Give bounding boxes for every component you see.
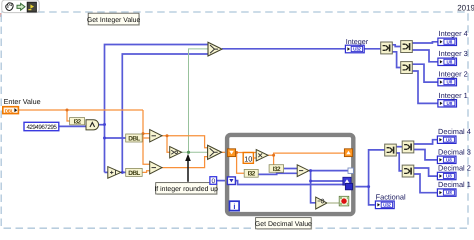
svg-text:Get Integer Value: Get Integer Value bbox=[87, 17, 141, 24]
svg-text:Decimal 3: Decimal 3 bbox=[438, 147, 471, 156]
node SR feed junction bbox=[309, 180, 312, 183]
hollow output tunnel bbox=[348, 168, 353, 173]
conversion I32a bbox=[244, 169, 258, 177]
wire constant-to-AND bbox=[59, 125, 86, 127]
wire multiply out to right orange SR bbox=[268, 153, 345, 155]
wire split1 hi to split2 bbox=[392, 45, 401, 47]
WIRES-BLUE bbox=[59, 42, 438, 205]
constant 4294967295 bbox=[24, 122, 59, 131]
wire boolean up to Select1 s bbox=[189, 49, 209, 152]
svg-text:10: 10 bbox=[244, 154, 252, 163]
conversion DBL1 bbox=[126, 134, 143, 142]
svg-text:I32: I32 bbox=[74, 119, 82, 126]
wire AND-output bbox=[99, 124, 105, 126]
wire split1 lo to split3 bbox=[392, 52, 401, 68]
wire vertical to subtract2 bbox=[143, 110, 150, 164]
toolbar hand icon bbox=[6, 3, 13, 11]
indicator terminal Integer 1 bbox=[438, 100, 457, 107]
node subtract1 out branch bbox=[166, 134, 169, 137]
junction dots orange bbox=[66, 109, 276, 157]
svg-text:DBL: DBL bbox=[128, 135, 140, 142]
multiply U8 bbox=[256, 150, 268, 161]
node subtract3-out junction bbox=[309, 169, 312, 172]
subtract U3 bbox=[150, 161, 162, 174]
wire DBL1 out to subtract1 y input bbox=[142, 137, 150, 139]
wire subtract2 out to Select2 f bbox=[162, 157, 208, 168]
constant 10 bbox=[243, 153, 253, 164]
shift register right blue bbox=[343, 177, 351, 185]
for loop F1 bbox=[227, 135, 353, 214]
power-of-10 U10 bbox=[316, 197, 327, 209]
select U6 bbox=[208, 42, 222, 56]
wire branch down to comparison bbox=[167, 136, 170, 153]
wire Enter Value main run bbox=[19, 109, 144, 111]
wire DBL2 out to subtract2 y input bbox=[142, 171, 150, 173]
indicator terminal Integer 2 bbox=[438, 78, 457, 85]
node AND-out junction bbox=[103, 123, 106, 126]
split number S4 bbox=[385, 144, 397, 156]
svg-text:Decimal 4: Decimal 4 bbox=[438, 127, 471, 136]
wire branch to subtract1 x input bbox=[143, 133, 150, 135]
toolbar container bbox=[2, 0, 39, 13]
split number S2 bbox=[401, 41, 413, 53]
select U7 bbox=[208, 145, 222, 159]
split number S6 bbox=[402, 165, 414, 177]
comparison greater-than-0 U5 bbox=[170, 147, 182, 158]
indicator terminal Decimal 2 bbox=[437, 172, 456, 179]
annotation arrow bbox=[185, 154, 191, 182]
svg-text:Factional: Factional bbox=[376, 192, 406, 201]
increment U4 bbox=[108, 167, 121, 179]
wire subtract3 out to hollow tunnel bbox=[309, 170, 348, 172]
wire branch down to I32b bbox=[273, 155, 275, 164]
left edge mark bbox=[0, 13, 2, 17]
indicator terminal Factional bbox=[375, 201, 394, 209]
toolbar run arrow icon bbox=[17, 3, 25, 10]
conversion DBL2 bbox=[126, 168, 143, 176]
split number S3 bbox=[401, 62, 413, 74]
node boolean junction bbox=[187, 151, 190, 154]
svg-text:Decimal 1: Decimal 1 bbox=[438, 180, 471, 189]
wire Select1 output to Integer terminal and Split1 bbox=[222, 48, 381, 50]
wire branch down to power-of-10 bbox=[311, 181, 316, 203]
svg-text:Integer 3: Integer 3 bbox=[439, 49, 468, 58]
wire comparison out to Select2 s bbox=[182, 151, 208, 153]
control terminal Enter Value bbox=[3, 107, 19, 114]
wire branch down to right blue SR bbox=[311, 171, 343, 181]
wire const0 to left blue shift register bbox=[217, 180, 228, 182]
free label If integer rounded up bbox=[154, 183, 218, 195]
node subtract1 x branch bbox=[142, 132, 145, 135]
subtract U9 bbox=[297, 165, 309, 177]
node increment-out junction bbox=[121, 171, 124, 174]
svg-text:DBL: DBL bbox=[5, 109, 14, 114]
wire split4 hi to split5 bbox=[396, 146, 402, 148]
wire split5 hi to Decimal4 bbox=[414, 140, 437, 144]
indicator terminal Integer 4 bbox=[438, 38, 457, 45]
wire left blue SR to output tunnel bbox=[235, 181, 345, 185]
wire SR to multiply bbox=[236, 152, 257, 154]
split number S1 bbox=[381, 42, 393, 54]
wire v1 AND-out up to Select1 t bbox=[105, 45, 209, 173]
svg-text:Enter Value: Enter Value bbox=[4, 97, 41, 106]
svg-text:I32: I32 bbox=[273, 166, 281, 173]
shift register right orange bbox=[344, 149, 352, 157]
split number S5 bbox=[402, 141, 414, 153]
svg-text:i: i bbox=[233, 202, 235, 211]
svg-text:I32: I32 bbox=[248, 171, 256, 178]
wire solid tunnel out bbox=[353, 186, 369, 188]
wire to multiply-accumulate bbox=[327, 202, 339, 204]
wire v1 branch to DBL1 bbox=[105, 137, 127, 139]
svg-text:Integer: Integer bbox=[346, 37, 369, 46]
WIRES-GREEN bbox=[182, 49, 208, 152]
wire branch down to I32 conversion bbox=[67, 110, 70, 121]
wire Select2 out to left orange SR bbox=[222, 151, 228, 153]
conversion I32b bbox=[269, 165, 284, 173]
toolbar vi icon bbox=[27, 2, 36, 12]
wire split2 lo to Integer3 bbox=[412, 50, 438, 62]
svg-text:Integer 2: Integer 2 bbox=[439, 69, 468, 78]
svg-text:Get Decimal Value: Get Decimal Value bbox=[255, 221, 312, 228]
wire split6 hi to Decimal2 bbox=[414, 168, 437, 176]
solid output tunnel bbox=[345, 183, 352, 189]
svg-text:4294967295: 4294967295 bbox=[26, 124, 57, 131]
multiply-accumulate icon U11 bbox=[339, 196, 349, 206]
subtract U2 bbox=[150, 130, 162, 142]
wire subtract1 out to Select2 t bbox=[162, 136, 208, 148]
svg-text:Integer 1: Integer 1 bbox=[439, 91, 468, 100]
indicator terminal Decimal 4 bbox=[437, 136, 456, 143]
node v1-DBL1 junction bbox=[103, 137, 106, 140]
shift register left orange bbox=[227, 149, 235, 157]
svg-text:2019: 2019 bbox=[457, 3, 474, 12]
wire split4 lo to split6 bbox=[396, 153, 402, 171]
indicator terminal Decimal 1 bbox=[437, 189, 456, 196]
free label Get Decimal Value bbox=[255, 218, 312, 230]
wire branch down to I32a bbox=[237, 153, 245, 174]
wire split3 hi to Integer2 bbox=[412, 64, 438, 82]
wire up to split4 bbox=[369, 150, 385, 187]
node SR out branch bbox=[235, 151, 238, 154]
junction dots blue bbox=[103, 123, 370, 188]
wire const10 to multiply bbox=[253, 157, 256, 159]
WIRES-ORANGE bbox=[19, 110, 345, 173]
svg-text:0: 0 bbox=[211, 178, 215, 185]
AND gate U1 bbox=[86, 120, 99, 130]
wire I32a to subtract3 lower input bbox=[258, 173, 297, 174]
node multiply out branch bbox=[272, 154, 275, 157]
node enter-value branch bbox=[66, 109, 69, 112]
svg-text:If integer rounded up: If integer rounded up bbox=[154, 186, 218, 193]
svg-text:Integer 4: Integer 4 bbox=[439, 29, 468, 38]
wire v1 bottom into increment bbox=[105, 171, 108, 173]
indicator terminal Integer 3 bbox=[438, 58, 457, 65]
indicator terminal Decimal 3 bbox=[437, 156, 456, 163]
wire I32b to subtract3 upper input bbox=[284, 168, 298, 170]
free label Get Integer Value bbox=[87, 13, 141, 25]
svg-text:Decimal 2: Decimal 2 bbox=[438, 164, 471, 173]
wire split5 lo to Decimal3 bbox=[414, 150, 437, 160]
shift register left blue bbox=[227, 177, 235, 185]
iteration terminal i bbox=[230, 201, 240, 211]
wire split2 hi to Integer4 bbox=[412, 42, 438, 43]
wire down to Factional bbox=[369, 187, 375, 205]
wire split3 lo to Integer1 bbox=[412, 71, 438, 103]
svg-text:DBL: DBL bbox=[128, 170, 140, 177]
wire v2 increment-out up to Select1 f bbox=[121, 54, 208, 172]
node tunnel-out junction bbox=[367, 185, 370, 188]
wire split6 lo to Decimal1 bbox=[414, 174, 437, 193]
conversion I32 U0 bbox=[70, 118, 85, 126]
indicator terminal Integer bbox=[345, 45, 364, 53]
constant 0 bbox=[210, 177, 217, 186]
